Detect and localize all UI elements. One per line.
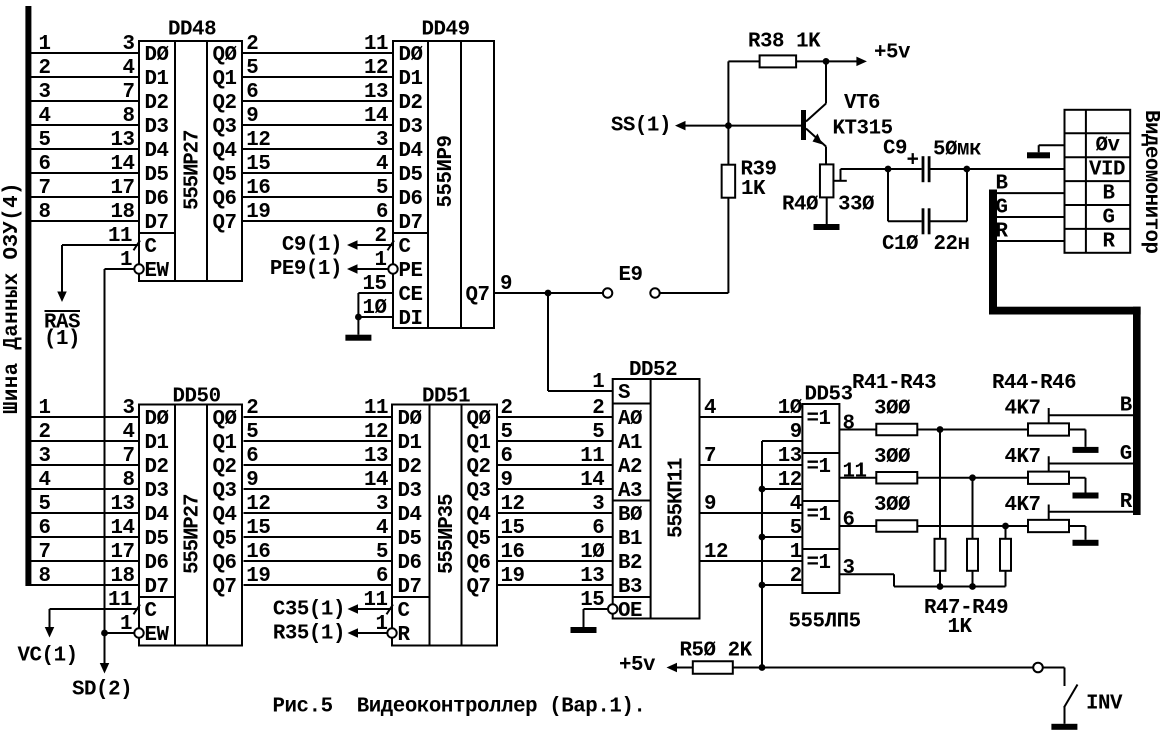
svg-text:D1: D1 bbox=[399, 68, 423, 91]
DD53 input pin 13 number bbox=[778, 445, 802, 468]
svg-text:G: G bbox=[1120, 443, 1132, 466]
wire DD52 out pin 9 to DD53 pin 4 bbox=[700, 493, 803, 516]
DD48 pin 11 (C) wire to RAS bbox=[57, 225, 139, 302]
wire DD51 Q1 (pin 5) to DD52 (pin 5) bbox=[497, 421, 613, 444]
svg-text:D7: D7 bbox=[145, 212, 169, 235]
svg-text:6: 6 bbox=[843, 509, 855, 532]
ground under INV bbox=[1051, 724, 1077, 730]
wire R46 to ground bbox=[1069, 526, 1086, 540]
svg-text:D6: D6 bbox=[145, 188, 169, 211]
DD51 pin 11 (C) wire bbox=[348, 589, 393, 614]
register DD48 555ИР27 bbox=[139, 18, 242, 283]
+5v arrow (top) bbox=[856, 41, 911, 66]
svg-text:EW: EW bbox=[145, 260, 170, 283]
svg-text:Q6: Q6 bbox=[213, 552, 237, 575]
svg-text:4: 4 bbox=[376, 517, 388, 540]
svg-text:7: 7 bbox=[39, 177, 51, 200]
svg-text:9: 9 bbox=[501, 469, 513, 492]
wire bus to DD48 D3 (pin 8) bbox=[31, 105, 139, 128]
svg-text:4: 4 bbox=[122, 57, 134, 80]
svg-text:8: 8 bbox=[122, 105, 134, 128]
register DD50 555ИР27 bbox=[139, 386, 242, 647]
wire DD51 Q2 (pin 6) to DD52 (pin 11) bbox=[497, 445, 613, 468]
svg-text:C: C bbox=[398, 600, 410, 623]
svg-text:8: 8 bbox=[39, 565, 51, 588]
svg-text:Øv: Øv bbox=[1096, 134, 1121, 157]
svg-text:D5: D5 bbox=[145, 164, 169, 187]
svg-text:13: 13 bbox=[110, 129, 134, 152]
junction to R49 bbox=[1002, 523, 1009, 530]
capacitor C9 50мк (electrolytic) bbox=[883, 137, 981, 182]
wire down to SD with arrow bbox=[100, 633, 110, 674]
svg-text:Q5: Q5 bbox=[467, 528, 491, 551]
DD51 clock chevron bbox=[387, 605, 394, 615]
svg-text:D3: D3 bbox=[399, 116, 423, 139]
wire bus to DD50 D4 (pin 13) bbox=[31, 493, 139, 516]
svg-text:2: 2 bbox=[39, 57, 51, 80]
wire DD51 Q7 (pin 19) to DD52 (pin 13) bbox=[497, 565, 613, 588]
register DD51 555ИР35 bbox=[392, 386, 497, 647]
wire DD51 Q4 (pin 12) to DD52 (pin 3) bbox=[497, 493, 613, 516]
DD53 input pin 1 number bbox=[790, 541, 802, 564]
svg-text:8: 8 bbox=[39, 201, 51, 224]
svg-text:1Ø: 1Ø bbox=[778, 397, 802, 420]
svg-text:555ИР27: 555ИР27 bbox=[182, 130, 205, 210]
svg-text:PE9(1): PE9(1) bbox=[270, 258, 342, 281]
svg-text:R: R bbox=[1103, 230, 1116, 253]
svg-text:13: 13 bbox=[364, 445, 388, 468]
wire R38 left leg down to base node bbox=[727, 61, 729, 164]
wire bus to DD50 D1 (pin 4) bbox=[31, 421, 139, 444]
resistor R42 300 bbox=[874, 446, 917, 484]
svg-text:5: 5 bbox=[246, 421, 258, 444]
net label C35(1) bbox=[273, 599, 345, 622]
svg-text:5: 5 bbox=[376, 177, 388, 200]
ground under DD49 bbox=[345, 335, 371, 341]
resistor R50 2K bbox=[680, 639, 753, 673]
svg-text:2: 2 bbox=[246, 33, 258, 56]
potentiometer R44 4K7 bbox=[1005, 398, 1070, 436]
+5v arrow (bottom) bbox=[619, 654, 693, 677]
svg-text:R4Ø: R4Ø bbox=[782, 194, 818, 217]
DD49 PE inversion circle bbox=[388, 264, 397, 273]
svg-text:14: 14 bbox=[364, 105, 388, 128]
resistor R48 1K bbox=[967, 478, 978, 587]
wire E9 to R39/R40 branch bbox=[660, 198, 729, 293]
svg-text:DD53: DD53 bbox=[805, 384, 853, 407]
svg-text:C: C bbox=[145, 236, 157, 259]
svg-text:19: 19 bbox=[501, 565, 525, 588]
net label SS(1) with arrow bbox=[611, 115, 686, 138]
xor gates DD53 555ЛП5 bbox=[789, 384, 861, 634]
svg-text:C35(1): C35(1) bbox=[273, 599, 345, 622]
ground under R44 bbox=[1073, 447, 1099, 453]
svg-text:11: 11 bbox=[364, 33, 388, 56]
svg-text:4K7: 4K7 bbox=[1005, 446, 1041, 469]
svg-text:12: 12 bbox=[501, 493, 525, 516]
wire DD52 out pin 12 to DD53 pin 1 bbox=[700, 541, 803, 564]
wire bus to DD50 D3 (pin 8) bbox=[31, 469, 139, 492]
wire R41 to R44 bbox=[917, 429, 1028, 431]
svg-text:C9: C9 bbox=[883, 137, 907, 160]
ground at 0v pin bbox=[1027, 152, 1050, 158]
svg-text:(1): (1) bbox=[44, 328, 80, 351]
wire bus to DD50 D2 (pin 7) bbox=[31, 445, 139, 468]
svg-text:555ЛП5: 555ЛП5 bbox=[789, 611, 861, 634]
svg-text:5: 5 bbox=[39, 493, 51, 516]
svg-text:D4: D4 bbox=[145, 504, 169, 527]
caption Рис.5 bbox=[273, 696, 646, 719]
junction feeder/R50 bbox=[759, 664, 766, 671]
svg-text:D3: D3 bbox=[145, 116, 169, 139]
wire DD53 out pin 8 to R41 bbox=[839, 412, 876, 435]
wire DD48 Q2 (pin 6) to DD49 D2 (pin 13) bbox=[242, 81, 393, 104]
svg-text:6: 6 bbox=[592, 517, 604, 540]
svg-text:Q1: Q1 bbox=[213, 68, 237, 91]
svg-text:DØ: DØ bbox=[398, 408, 422, 431]
DD53 input pin 2 number bbox=[790, 565, 802, 588]
wire DD53 out pin 11 to R42 bbox=[839, 461, 876, 484]
svg-text:QØ: QØ bbox=[213, 408, 237, 431]
wire Q7 node down to DD52 S bbox=[548, 293, 613, 391]
svg-text:12: 12 bbox=[246, 493, 270, 516]
svg-text:13: 13 bbox=[778, 445, 802, 468]
wire DD50 Q5 (pin 15) to DD51 D5 (pin 4) bbox=[244, 517, 393, 540]
svg-text:3ØØ: 3ØØ bbox=[874, 446, 910, 469]
svg-text:C1Ø: C1Ø bbox=[882, 233, 918, 256]
svg-text:D4: D4 bbox=[398, 504, 422, 527]
svg-text:+5v: +5v bbox=[874, 41, 911, 64]
wire bus to DD48 D6 (pin 17) bbox=[31, 177, 139, 200]
wire C9 to VID node bbox=[931, 168, 1065, 170]
svg-text:C: C bbox=[145, 600, 157, 623]
wire DD50 Q2 (pin 6) to DD51 D2 (pin 13) bbox=[244, 445, 393, 468]
svg-text:6: 6 bbox=[376, 201, 388, 224]
svg-text:INV: INV bbox=[1086, 693, 1123, 716]
svg-text:6: 6 bbox=[39, 153, 51, 176]
wire R50 to INV switch bbox=[733, 667, 1033, 669]
svg-text:Q3: Q3 bbox=[213, 116, 237, 139]
DD53 input pin 9 number bbox=[790, 421, 802, 444]
wire bus to DD50 D0 (pin 3) bbox=[31, 397, 139, 420]
wire bus to DD48 D1 (pin 4) bbox=[31, 57, 139, 80]
ground under R40 bbox=[814, 224, 840, 230]
svg-text:Q1: Q1 bbox=[467, 432, 491, 455]
wire R43 to R46 bbox=[917, 525, 1028, 527]
svg-text:CE: CE bbox=[399, 284, 423, 307]
net label SD(2) bbox=[72, 679, 132, 702]
svg-text:BØ: BØ bbox=[618, 504, 642, 527]
svg-text:4: 4 bbox=[704, 397, 716, 420]
svg-text:17: 17 bbox=[110, 177, 134, 200]
potentiometer R40 330 bbox=[782, 164, 874, 224]
svg-text:Q6: Q6 bbox=[467, 552, 491, 575]
svg-text:DD52: DD52 bbox=[629, 359, 677, 382]
svg-text:Q7: Q7 bbox=[466, 284, 490, 307]
svg-text:Q5: Q5 bbox=[213, 528, 237, 551]
wire bus to DD50 D6 (pin 17) bbox=[31, 541, 139, 564]
DD50 pin 1 (EW) wire bbox=[105, 613, 135, 636]
wire bus to DD50 D5 (pin 14) bbox=[31, 517, 139, 540]
DD52 pin 1 (S) number bbox=[592, 371, 604, 394]
svg-text:Видеомонитор: Видеомонитор bbox=[1139, 110, 1162, 254]
DD50 clock chevron bbox=[134, 605, 141, 615]
svg-text:DD48: DD48 bbox=[168, 18, 216, 41]
switch INV bbox=[1033, 663, 1123, 724]
svg-text:3: 3 bbox=[376, 129, 388, 152]
resistor R39 1K bbox=[722, 159, 777, 201]
svg-text:9: 9 bbox=[246, 469, 258, 492]
junction R48 bottom bbox=[969, 583, 976, 590]
wire G wiper to cable bbox=[1049, 443, 1133, 466]
svg-text:D7: D7 bbox=[145, 576, 169, 599]
svg-text:+5v: +5v bbox=[619, 654, 656, 677]
svg-text:OE: OE bbox=[618, 600, 642, 623]
transistor VT6 KT315 bbox=[801, 61, 893, 164]
svg-text:17: 17 bbox=[110, 541, 134, 564]
svg-text:=1: =1 bbox=[807, 408, 831, 431]
net label VC(1) bbox=[18, 645, 78, 668]
svg-text:C: C bbox=[399, 236, 411, 259]
svg-text:Q2: Q2 bbox=[213, 92, 237, 115]
svg-text:8: 8 bbox=[843, 412, 855, 435]
svg-text:11: 11 bbox=[364, 397, 388, 420]
DD52 OE inversion circle bbox=[608, 604, 617, 613]
svg-text:Q2: Q2 bbox=[467, 456, 491, 479]
svg-text:Q4: Q4 bbox=[213, 504, 237, 527]
wire DD48 Q7 (pin 19) to DD49 D7 (pin 6) bbox=[242, 201, 393, 224]
svg-text:D6: D6 bbox=[399, 188, 423, 211]
wire base node to VT6 base bbox=[685, 125, 802, 127]
svg-text:16: 16 bbox=[246, 177, 270, 200]
net label PE9(1) bbox=[270, 258, 342, 281]
wire DD48 Q5 (pin 15) to DD49 D5 (pin 4) bbox=[242, 153, 393, 176]
wire B wiper to cable bbox=[1049, 395, 1133, 418]
svg-text:D2: D2 bbox=[398, 456, 422, 479]
svg-text:A2: A2 bbox=[618, 456, 642, 479]
svg-text:=1: =1 bbox=[807, 552, 831, 575]
svg-text:16: 16 bbox=[501, 541, 525, 564]
label R44-R46 bbox=[992, 372, 1076, 395]
net label C9(1) bbox=[282, 234, 342, 257]
resistor R43 300 bbox=[874, 494, 917, 532]
junction collector/+5v bbox=[823, 58, 830, 65]
net label R35(1) bbox=[273, 623, 345, 646]
junction VID node bbox=[963, 166, 970, 173]
DD53 input pin 10 number bbox=[778, 397, 802, 420]
svg-text:Q1: Q1 bbox=[213, 432, 237, 455]
svg-text:5: 5 bbox=[592, 421, 604, 444]
svg-text:15: 15 bbox=[501, 517, 525, 540]
svg-text:G: G bbox=[1103, 207, 1115, 230]
svg-text:6: 6 bbox=[246, 81, 258, 104]
wire DD51 Q0 (pin 2) to DD52 (pin 2) bbox=[497, 397, 613, 420]
svg-text:R: R bbox=[398, 624, 411, 647]
svg-text:5: 5 bbox=[376, 541, 388, 564]
svg-text:D7: D7 bbox=[399, 212, 423, 235]
svg-text:R: R bbox=[1120, 491, 1133, 514]
svg-text:R41-R43: R41-R43 bbox=[852, 372, 936, 395]
svg-text:1: 1 bbox=[39, 33, 51, 56]
wire DD53 out pin 3 to R47-R49 bottoms bbox=[839, 557, 1005, 587]
svg-text:12: 12 bbox=[704, 541, 728, 564]
wire DD50 Q6 (pin 16) to DD51 D6 (pin 5) bbox=[244, 541, 393, 564]
svg-text:1K: 1K bbox=[948, 616, 973, 639]
svg-text:DØ: DØ bbox=[399, 44, 423, 67]
wire DD50 Q4 (pin 12) to DD51 D4 (pin 3) bbox=[244, 493, 393, 516]
wire DD48 Q0 (pin 2) to DD49 D0 (pin 11) bbox=[242, 33, 393, 56]
svg-text:555ИР9: 555ИР9 bbox=[435, 136, 458, 208]
cable bundle to monitor (thick) bbox=[989, 190, 1141, 516]
svg-text:C9(1): C9(1) bbox=[282, 234, 342, 257]
svg-text:QØ: QØ bbox=[467, 408, 491, 431]
svg-text:D3: D3 bbox=[145, 480, 169, 503]
wire R44 to ground bbox=[1069, 430, 1086, 447]
svg-text:D5: D5 bbox=[145, 528, 169, 551]
svg-text:7: 7 bbox=[122, 445, 134, 468]
wire bus to DD48 D5 (pin 14) bbox=[31, 153, 139, 176]
svg-text:A3: A3 bbox=[618, 480, 642, 503]
svg-text:SS(1): SS(1) bbox=[611, 115, 671, 138]
svg-text:6: 6 bbox=[246, 445, 258, 468]
resistor R47 1K bbox=[935, 430, 946, 587]
svg-text:13: 13 bbox=[580, 565, 604, 588]
svg-text:18: 18 bbox=[110, 565, 134, 588]
svg-text:4K7: 4K7 bbox=[1005, 398, 1041, 421]
svg-text:6: 6 bbox=[501, 445, 513, 468]
svg-text:7: 7 bbox=[39, 541, 51, 564]
wire R wiper to cable bbox=[1049, 491, 1133, 514]
svg-text:VT6: VT6 bbox=[844, 92, 880, 115]
DD51 R inversion circle bbox=[387, 628, 396, 637]
svg-text:DD51: DD51 bbox=[422, 386, 470, 409]
svg-text:14: 14 bbox=[580, 469, 604, 492]
svg-text:D6: D6 bbox=[398, 552, 422, 575]
svg-text:4: 4 bbox=[790, 493, 802, 516]
junction C9/C10 left bbox=[885, 166, 892, 173]
wire bus to DD50 D7 (pin 18) bbox=[31, 565, 139, 588]
svg-text:3: 3 bbox=[122, 33, 134, 56]
svg-text:12: 12 bbox=[364, 421, 388, 444]
DD48 pin 1 (EW) wire bbox=[105, 249, 135, 633]
svg-text:B3: B3 bbox=[618, 576, 642, 599]
potentiometer R46 4K7 bbox=[1005, 494, 1070, 532]
svg-text:R35(1): R35(1) bbox=[273, 623, 345, 646]
svg-text:7: 7 bbox=[704, 445, 716, 468]
svg-text:9: 9 bbox=[246, 105, 258, 128]
wire bus to DD48 D4 (pin 13) bbox=[31, 129, 139, 152]
svg-text:11: 11 bbox=[580, 445, 604, 468]
svg-text:2: 2 bbox=[501, 397, 513, 420]
resistor R41 300 bbox=[874, 398, 917, 436]
junction base node bbox=[725, 122, 732, 129]
ground under R45 bbox=[1073, 493, 1099, 499]
svg-text:11: 11 bbox=[843, 461, 867, 484]
DD49 clock chevron bbox=[388, 241, 395, 251]
wire bus to DD48 D7 (pin 18) bbox=[31, 201, 139, 224]
svg-text:DØ: DØ bbox=[145, 408, 169, 431]
svg-text:R44-R46: R44-R46 bbox=[992, 372, 1076, 395]
svg-text:18: 18 bbox=[110, 201, 134, 224]
junction feeder taps bbox=[759, 486, 766, 589]
wire DD48 Q6 (pin 16) to DD49 D6 (pin 5) bbox=[242, 177, 393, 200]
wire VID row bbox=[967, 168, 1065, 170]
svg-text:D4: D4 bbox=[399, 140, 423, 163]
wire DD51 Q6 (pin 16) to DD52 (pin 10) bbox=[497, 541, 613, 564]
svg-text:Шина Данных ОЗУ(4): Шина Данных ОЗУ(4) bbox=[1, 183, 24, 414]
svg-text:13: 13 bbox=[110, 493, 134, 516]
svg-text:D2: D2 bbox=[399, 92, 423, 115]
svg-text:S: S bbox=[618, 382, 630, 405]
svg-text:22н: 22н bbox=[934, 233, 970, 256]
svg-text:VID: VID bbox=[1089, 159, 1125, 182]
DD53 input pin 12 number bbox=[778, 469, 802, 492]
svg-text:8: 8 bbox=[122, 469, 134, 492]
svg-text:3: 3 bbox=[843, 557, 855, 580]
DD49 pin 10 (DI) wire bbox=[358, 297, 393, 320]
svg-text:E9: E9 bbox=[619, 264, 643, 287]
0v ground stub bbox=[1039, 145, 1065, 152]
svg-text:1K: 1K bbox=[741, 178, 766, 201]
junction to R47 bbox=[937, 426, 944, 433]
svg-text:DI: DI bbox=[399, 308, 423, 331]
DD52 pin 15 (OE) wire to ground bbox=[580, 589, 608, 627]
wire DD52 out pin 7 to DD53 pin 13 bbox=[700, 445, 803, 468]
svg-text:Q3: Q3 bbox=[213, 480, 237, 503]
wire bus to DD48 D0 (pin 3) bbox=[31, 33, 139, 56]
svg-text:1: 1 bbox=[592, 371, 604, 394]
svg-text:16: 16 bbox=[246, 541, 270, 564]
DD49 pin 2 (C) wire bbox=[347, 225, 393, 250]
svg-text:1: 1 bbox=[790, 541, 802, 564]
svg-text:B2: B2 bbox=[618, 552, 642, 575]
svg-text:3: 3 bbox=[376, 493, 388, 516]
svg-text:12: 12 bbox=[364, 57, 388, 80]
svg-text:15: 15 bbox=[246, 153, 270, 176]
svg-text:3ØØ: 3ØØ bbox=[874, 494, 910, 517]
svg-text:PE: PE bbox=[399, 260, 423, 283]
svg-text:1: 1 bbox=[39, 397, 51, 420]
svg-text:7: 7 bbox=[122, 81, 134, 104]
wire DD51 Q5 (pin 15) to DD52 (pin 6) bbox=[497, 517, 613, 540]
wire DD53 out pin 6 to R43 bbox=[839, 509, 876, 532]
DD51 pin 1 (R) wire bbox=[348, 613, 388, 638]
svg-text:Q4: Q4 bbox=[213, 140, 237, 163]
wire DD50 Q1 (pin 5) to DD51 D1 (pin 12) bbox=[244, 421, 393, 444]
svg-text:VC(1): VC(1) bbox=[18, 645, 78, 668]
svg-text:D4: D4 bbox=[145, 140, 169, 163]
svg-text:4: 4 bbox=[122, 421, 134, 444]
multiplexer DD52 555КП11 bbox=[613, 359, 700, 623]
connector Видеомонитор bbox=[1065, 110, 1163, 254]
svg-text:D5: D5 bbox=[398, 528, 422, 551]
svg-text:2: 2 bbox=[39, 421, 51, 444]
svg-text:14: 14 bbox=[110, 517, 134, 540]
wire DD48 Q3 (pin 9) to DD49 D3 (pin 14) bbox=[242, 105, 393, 128]
svg-text:D1: D1 bbox=[145, 432, 169, 455]
svg-text:AØ: AØ bbox=[618, 408, 642, 431]
svg-text:Q4: Q4 bbox=[467, 504, 491, 527]
svg-text:SD(2): SD(2) bbox=[72, 679, 132, 702]
svg-text:13: 13 bbox=[364, 81, 388, 104]
wire bus to DD48 D2 (pin 7) bbox=[31, 81, 139, 104]
svg-text:+: + bbox=[907, 150, 919, 173]
svg-text:D2: D2 bbox=[145, 92, 169, 115]
svg-text:D3: D3 bbox=[398, 480, 422, 503]
junction to R48 bbox=[969, 474, 976, 481]
switch E9 contacts bbox=[603, 264, 660, 298]
svg-text:1Ø: 1Ø bbox=[580, 541, 604, 564]
